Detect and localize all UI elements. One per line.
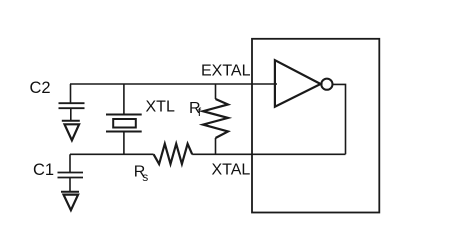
svg-text:C1: C1 — [33, 161, 54, 179]
svg-text:XTL: XTL — [146, 99, 175, 116]
svg-text:XTAL: XTAL — [212, 162, 251, 179]
svg-text:s: s — [142, 170, 148, 184]
svg-text:C2: C2 — [30, 79, 51, 97]
svg-text:EXTAL: EXTAL — [201, 63, 251, 80]
